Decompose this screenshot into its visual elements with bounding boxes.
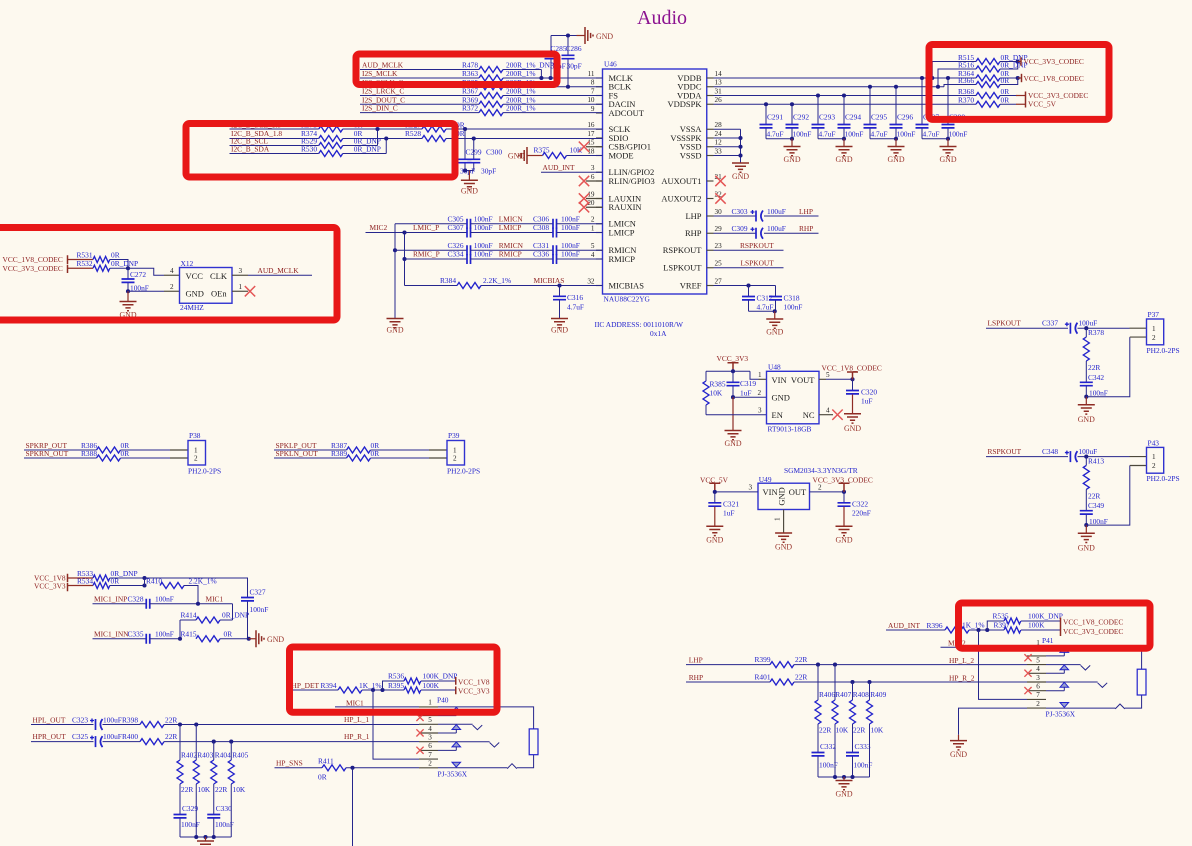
svg-text:R378: R378 — [1088, 328, 1104, 337]
U46 right pin 29 RHP — [707, 232, 714, 234]
svg-text:C305: C305 — [448, 214, 464, 223]
svg-text:0R: 0R — [111, 576, 120, 585]
resistor R414 0R_DNP — [232, 604, 234, 620]
no-connect pin 6 — [586, 180, 603, 182]
svg-text:1uF: 1uF — [740, 388, 752, 397]
svg-text:7: 7 — [591, 87, 595, 95]
op-amp U46 codec box — [603, 69, 707, 294]
svg-text:C325: C325 — [72, 732, 88, 741]
svg-text:1: 1 — [239, 283, 243, 291]
svg-text:100nF: 100nF — [949, 130, 968, 139]
svg-text:26: 26 — [715, 96, 723, 104]
highlight box 3 — [0, 228, 337, 321]
svg-text:P39: P39 — [448, 431, 460, 440]
wire AUD_INT to jack pin 7 — [979, 630, 1028, 699]
resistor R536 100K_DNP — [383, 681, 405, 690]
svg-text:22R: 22R — [165, 732, 177, 741]
wire VSS pins to ground — [714, 128, 741, 130]
svg-text:100uF: 100uF — [767, 224, 786, 233]
svg-text:100nF: 100nF — [474, 241, 493, 250]
U46 right pin 28 VSSA — [707, 128, 714, 130]
capacitor C332 100nF — [817, 724, 819, 753]
ground top — [577, 35, 586, 37]
svg-text:4.7uF: 4.7uF — [767, 130, 784, 139]
U46 right pin 33 VSSD — [707, 155, 714, 157]
svg-text:C332: C332 — [820, 742, 836, 751]
svg-text:P41: P41 — [1042, 636, 1054, 645]
svg-text:1: 1 — [453, 447, 457, 455]
svg-text:AUD_MCLK: AUD_MCLK — [258, 266, 300, 275]
svg-text:RLIN/GPIO3: RLIN/GPIO3 — [609, 176, 655, 186]
svg-text:11: 11 — [588, 70, 595, 78]
resistor R535 100K_DNP — [987, 621, 1004, 630]
svg-text:OUT: OUT — [789, 487, 807, 497]
svg-text:100nF: 100nF — [561, 223, 580, 232]
svg-text:2: 2 — [1152, 462, 1156, 470]
svg-text:C342: C342 — [1088, 373, 1104, 382]
svg-text:100nF: 100nF — [474, 214, 493, 223]
svg-text:C321: C321 — [723, 499, 739, 508]
svg-text:23: 23 — [715, 242, 723, 250]
U46 left pin 4 RMICP — [596, 258, 603, 260]
capacitor C321 1uF — [714, 492, 716, 503]
svg-text:GND: GND — [844, 424, 861, 433]
svg-text:200R_1%: 200R_1% — [506, 104, 536, 113]
svg-text:1: 1 — [591, 224, 595, 232]
capacitor C330 100nF — [213, 784, 215, 815]
svg-text:C295: C295 — [871, 113, 887, 122]
svg-text:100nF: 100nF — [474, 223, 493, 232]
svg-text:ADCOUT: ADCOUT — [609, 108, 645, 118]
svg-text:17: 17 — [587, 130, 595, 138]
capacitor C295 4.7uF — [869, 87, 871, 125]
svg-text:GND: GND — [724, 439, 741, 448]
svg-text:R395: R395 — [388, 681, 404, 690]
capacitor C348 100uF — [1065, 451, 1078, 463]
svg-text:3: 3 — [591, 164, 595, 172]
svg-text:10K: 10K — [871, 725, 884, 734]
svg-text:100nF: 100nF — [155, 629, 174, 638]
svg-text:100K: 100K — [423, 681, 440, 690]
svg-text:22R: 22R — [1088, 492, 1100, 501]
svg-text:LMIC_P: LMIC_P — [413, 223, 439, 232]
ground under mic caps — [387, 319, 404, 328]
svg-text:GND: GND — [775, 542, 792, 551]
U46 right pin 24 VSSSPK — [707, 137, 714, 139]
svg-text:1: 1 — [774, 517, 782, 521]
svg-text:3: 3 — [758, 406, 762, 414]
wire VDDC rail — [714, 86, 945, 88]
svg-text:C326: C326 — [448, 241, 464, 250]
svg-text:VCC_1V8_CODEC: VCC_1V8_CODEC — [1024, 74, 1084, 83]
capacitor C291 4.7uF — [765, 104, 767, 124]
svg-text:VCC_3V3: VCC_3V3 — [458, 686, 490, 695]
svg-text:22R: 22R — [853, 725, 865, 734]
U46 left pin 8 BCLK — [596, 86, 603, 88]
svg-text:HP_R_1: HP_R_1 — [344, 732, 370, 741]
U46 right pin 27 VREF — [707, 285, 714, 287]
svg-text:R394: R394 — [321, 681, 337, 690]
wire HP_SNS junction to bottom edge — [352, 768, 354, 846]
connector P37 PH2.0-2PS — [1147, 319, 1164, 345]
svg-text:GND: GND — [766, 328, 783, 337]
svg-text:22R: 22R — [1088, 363, 1100, 372]
svg-text:3: 3 — [749, 484, 753, 492]
svg-text:LSPKOUT: LSPKOUT — [741, 259, 775, 268]
connector P39 PH2.0-2PS — [447, 441, 465, 466]
svg-text:R411: R411 — [318, 756, 334, 765]
svg-text:MIC1: MIC1 — [346, 698, 364, 707]
svg-text:16: 16 — [587, 121, 595, 129]
svg-text:100uF: 100uF — [767, 207, 786, 216]
svg-text:GND: GND — [835, 790, 852, 799]
svg-text:U46: U46 — [604, 60, 617, 69]
svg-text:VCC_3V3_CODEC: VCC_3V3_CODEC — [1063, 627, 1123, 636]
svg-text:HPL_OUT: HPL_OUT — [33, 716, 66, 725]
svg-text:LSPKOUT: LSPKOUT — [663, 263, 702, 273]
svg-text:C309: C309 — [732, 224, 748, 233]
svg-text:GND: GND — [508, 151, 525, 160]
svg-text:P38: P38 — [189, 431, 201, 440]
U46 left pin 10 DACIN — [596, 103, 603, 105]
svg-text:4: 4 — [591, 251, 595, 259]
U46 left pin 18 MODE — [596, 155, 603, 157]
svg-text:RT9013-18GB: RT9013-18GB — [768, 425, 812, 434]
net AUD_MCLK from crystal — [232, 274, 248, 276]
ground under C299/C300 — [465, 170, 474, 172]
ground right of R415 — [249, 638, 256, 640]
capacitor C305 and C306 on LMICN row — [395, 223, 467, 225]
svg-text:MIC1_INN: MIC1_INN — [94, 629, 129, 638]
svg-text:RHP: RHP — [689, 673, 703, 682]
svg-text:SPKLN_OUT: SPKLN_OUT — [276, 449, 319, 458]
svg-text:4: 4 — [170, 267, 174, 275]
svg-text:R397: R397 — [994, 621, 1010, 630]
svg-text:VCC_3V3_CODEC: VCC_3V3_CODEC — [3, 264, 63, 273]
svg-text:P43: P43 — [1148, 439, 1160, 448]
svg-text:VCC_3V3_CODEC: VCC_3V3_CODEC — [1024, 57, 1084, 66]
connector P41 PJ-3536X — [1024, 639, 1146, 709]
svg-text:100nF: 100nF — [1089, 389, 1108, 398]
svg-text:RSPKOUT: RSPKOUT — [988, 447, 1022, 456]
U46 left pin 9 ADCOUT — [596, 112, 603, 114]
svg-text:3: 3 — [239, 267, 243, 275]
svg-text:4.7uF: 4.7uF — [923, 130, 940, 139]
resistor R378 22R — [1085, 328, 1087, 337]
ground under C349 — [1085, 525, 1087, 533]
svg-text:13: 13 — [715, 79, 723, 87]
svg-text:C349: C349 — [1088, 501, 1104, 510]
capacitor C303 100uF on LHP — [714, 215, 757, 217]
svg-text:R530: R530 — [301, 145, 317, 154]
ground under C316 — [551, 319, 568, 328]
svg-text:C300: C300 — [486, 147, 502, 156]
wire VOUT to VCC_1V8_CODEC — [819, 378, 826, 380]
svg-text:NC: NC — [803, 410, 815, 420]
power VCC_3V3_CODEC and VCC_5V — [1025, 92, 1027, 108]
svg-text:R534: R534 — [77, 576, 93, 585]
svg-text:VCC_3V3: VCC_3V3 — [34, 581, 66, 590]
svg-text:1uF: 1uF — [861, 396, 873, 405]
svg-text:GND: GND — [551, 326, 568, 335]
svg-text:31: 31 — [715, 87, 723, 95]
svg-text:0R_DNP: 0R_DNP — [354, 145, 381, 154]
svg-text:VIN: VIN — [772, 375, 787, 385]
svg-text:0R: 0R — [371, 449, 380, 458]
svg-text:R401: R401 — [755, 673, 771, 682]
svg-text:22R: 22R — [165, 716, 177, 725]
svg-text:MIC2: MIC2 — [370, 223, 388, 232]
U46 right pin 30 LHP — [707, 215, 714, 217]
wire to header pin 2 — [1086, 337, 1130, 397]
svg-text:R375: R375 — [534, 146, 550, 155]
U46 right pin 13 VDDC — [707, 86, 714, 88]
svg-text:HPR_OUT: HPR_OUT — [33, 732, 67, 741]
net LSPKOUT — [714, 267, 784, 269]
wire VCC_5V to VIN — [715, 491, 758, 493]
no-connect U48 NC pin — [819, 414, 833, 416]
wire to X12 VCC pin — [128, 268, 164, 275]
svg-text:R398: R398 — [122, 716, 138, 725]
svg-text:VCC: VCC — [186, 271, 204, 281]
svg-text:4.7uF: 4.7uF — [871, 130, 888, 139]
svg-text:LHP: LHP — [799, 207, 813, 216]
svg-text:AUD_INT: AUD_INT — [888, 621, 921, 630]
svg-text:GND: GND — [1078, 415, 1095, 424]
svg-text:4.7uF: 4.7uF — [567, 302, 584, 311]
svg-text:10: 10 — [587, 96, 595, 104]
svg-text:100nF: 100nF — [474, 250, 493, 259]
svg-text:MODE: MODE — [609, 150, 634, 160]
svg-text:VCC_3V3: VCC_3V3 — [717, 354, 749, 363]
svg-text:C330: C330 — [216, 804, 232, 813]
svg-text:100K_DNP: 100K_DNP — [1028, 612, 1063, 621]
svg-text:0R_DNP: 0R_DNP — [111, 259, 138, 268]
svg-text:29: 29 — [715, 225, 723, 233]
svg-text:LMICN: LMICN — [499, 214, 523, 223]
svg-text:C291: C291 — [767, 113, 783, 122]
svg-text:100nF: 100nF — [155, 594, 174, 603]
ground under C319 — [732, 397, 734, 430]
svg-text:100nF: 100nF — [784, 303, 803, 312]
no-connect X12 OEn — [232, 290, 248, 292]
svg-text:R528: R528 — [405, 129, 421, 138]
svg-text:PH2.0-2PS: PH2.0-2PS — [1147, 346, 1180, 355]
capacitor C286 30pF — [567, 59, 569, 86]
svg-text:LMICP: LMICP — [499, 223, 522, 232]
no-connect AUXOUT2 — [715, 193, 725, 203]
svg-text:AUD_INT: AUD_INT — [543, 163, 576, 172]
svg-text:SGM2034-3.3YN3G/TR: SGM2034-3.3YN3G/TR — [784, 466, 858, 475]
svg-text:27: 27 — [715, 277, 723, 285]
svg-text:C293: C293 — [819, 113, 835, 122]
wire VREF caps to ground — [749, 310, 776, 312]
svg-text:C331: C331 — [533, 241, 549, 250]
svg-text:HP_L_1: HP_L_1 — [344, 715, 369, 724]
svg-text:24: 24 — [715, 130, 723, 138]
svg-text:100uF: 100uF — [1078, 447, 1097, 456]
wire to header pin 2 — [1086, 466, 1130, 526]
oscillator X12 24MHZ — [180, 268, 233, 304]
svg-text:100nF: 100nF — [181, 820, 200, 829]
highlight box 1 — [356, 54, 557, 85]
resistor R384 2.2K_1% MICBIAS — [405, 285, 458, 287]
svg-text:C292: C292 — [793, 113, 809, 122]
highlight box 5 — [290, 647, 498, 712]
svg-text:24MHZ: 24MHZ — [180, 303, 204, 312]
svg-text:HP_DET: HP_DET — [292, 681, 320, 690]
svg-text:22R: 22R — [181, 785, 193, 794]
svg-text:C322: C322 — [852, 499, 868, 508]
svg-text:32: 32 — [587, 277, 595, 285]
U46 left pin 16 SCLK — [596, 128, 603, 130]
svg-text:R388: R388 — [81, 449, 97, 458]
ground bottom right block — [843, 777, 845, 781]
svg-text:C319: C319 — [740, 379, 756, 388]
svg-text:C294: C294 — [845, 113, 861, 122]
svg-text:GND: GND — [706, 535, 723, 544]
svg-text:0R: 0R — [224, 629, 233, 638]
svg-text:R407: R407 — [835, 690, 851, 699]
svg-text:22R: 22R — [795, 655, 807, 664]
svg-text:RMIC_P: RMIC_P — [413, 250, 440, 259]
svg-text:VDDSPK: VDDSPK — [667, 99, 702, 109]
connector P38 PH2.0-2PS — [188, 441, 206, 466]
svg-text:C333: C333 — [855, 742, 871, 751]
svg-text:C348: C348 — [1042, 447, 1058, 456]
svg-text:GND: GND — [835, 535, 852, 544]
resistor R368 0R — [976, 93, 1000, 99]
svg-text:PH2.0-2PS: PH2.0-2PS — [447, 467, 480, 476]
svg-text:C286: C286 — [566, 44, 582, 53]
svg-text:C308: C308 — [533, 223, 549, 232]
capacitor C317 4.7uF on VREF — [714, 285, 776, 287]
svg-text:R406: R406 — [819, 690, 835, 699]
svg-text:C316: C316 — [567, 293, 583, 302]
svg-text:GND: GND — [835, 155, 852, 164]
svg-text:GND: GND — [939, 155, 956, 164]
svg-text:LSPKOUT: LSPKOUT — [988, 319, 1022, 328]
svg-text:R413: R413 — [1088, 457, 1104, 466]
svg-text:14: 14 — [715, 70, 723, 78]
wire resistor bottoms to ground right block — [834, 724, 836, 777]
op-amp U48 regulator RT9013-18GB — [767, 371, 820, 424]
svg-text:R370: R370 — [958, 95, 974, 104]
svg-text:100nF: 100nF — [561, 241, 580, 250]
svg-text:P37: P37 — [1148, 310, 1160, 319]
svg-text:6: 6 — [591, 173, 595, 181]
power VCC_3V3_CODEC — [1020, 57, 1022, 65]
svg-text:GND: GND — [186, 289, 204, 299]
svg-text:28: 28 — [715, 121, 723, 129]
svg-text:GND: GND — [950, 750, 967, 759]
svg-text:MICBIAS: MICBIAS — [609, 280, 645, 290]
svg-text:RMICN: RMICN — [499, 241, 524, 250]
svg-text:R403: R403 — [197, 750, 213, 759]
svg-text:22R: 22R — [795, 673, 807, 682]
svg-text:R415: R415 — [181, 629, 197, 638]
svg-text:RHP: RHP — [799, 224, 813, 233]
svg-text:HP_SNS: HP_SNS — [276, 758, 303, 767]
svg-text:R409: R409 — [870, 690, 886, 699]
capacitor C333 100nF — [852, 724, 854, 753]
svg-text:GND: GND — [596, 32, 613, 41]
U46 left pin 15 CSB/GPIO1 — [596, 146, 603, 148]
svg-text:OEn: OEn — [211, 289, 227, 299]
svg-text:100K: 100K — [1028, 621, 1045, 630]
wire VDDSPK rail — [714, 103, 977, 105]
wire jack P41 pin 2 to ground — [959, 708, 1028, 735]
svg-text:4.7uF: 4.7uF — [819, 130, 836, 139]
svg-text:0R: 0R — [318, 772, 327, 781]
resistor R413 22R — [1085, 457, 1087, 466]
no-connect pin 19 — [586, 198, 603, 200]
svg-text:100nF: 100nF — [250, 605, 269, 614]
svg-text:R405: R405 — [232, 750, 248, 759]
capacitor C337 100uF — [1065, 322, 1078, 334]
svg-text:HP_R_2: HP_R_2 — [949, 674, 975, 683]
svg-text:U48: U48 — [768, 362, 781, 371]
svg-text:2: 2 — [758, 389, 762, 397]
svg-text:VCC_5V: VCC_5V — [1028, 100, 1057, 109]
svg-text:100nF: 100nF — [845, 130, 864, 139]
wire EN pin — [706, 414, 767, 416]
svg-text:2: 2 — [194, 455, 198, 463]
svg-text:RSPKOUT: RSPKOUT — [663, 245, 703, 255]
svg-text:22R: 22R — [819, 725, 831, 734]
svg-text:0R: 0R — [1001, 95, 1010, 104]
capacitor C307 and C308 on LMICP row — [405, 232, 468, 234]
svg-text:GND: GND — [887, 155, 904, 164]
svg-text:Audio: Audio — [637, 7, 687, 29]
U46 left pin 17 SDIO — [596, 137, 603, 139]
U46 right pin 31 VDDA — [707, 95, 714, 97]
svg-text:2: 2 — [591, 216, 595, 224]
svg-text:PH2.0-2PS: PH2.0-2PS — [1147, 474, 1180, 483]
svg-text:100nF: 100nF — [561, 250, 580, 259]
svg-text:10K: 10K — [836, 725, 849, 734]
wire MIC2 vertical — [404, 233, 406, 286]
svg-text:RSPKOUT: RSPKOUT — [740, 241, 774, 250]
svg-text:RMICP: RMICP — [609, 254, 636, 264]
svg-text:0x1A: 0x1A — [650, 329, 667, 338]
highlight box 4 — [929, 45, 1109, 120]
svg-text:9: 9 — [591, 105, 595, 113]
svg-text:I2C_B_SDA: I2C_B_SDA — [231, 145, 270, 154]
capacitor C329 100nF — [179, 784, 181, 815]
U46 left pin 3 LLIN/GPIO2 — [596, 171, 603, 173]
svg-text:100uF: 100uF — [1078, 319, 1097, 328]
svg-text:1K_1%: 1K_1% — [962, 621, 985, 630]
U46 left pin 6 RLIN/GPIO3 — [596, 180, 603, 182]
svg-text:100nF: 100nF — [897, 130, 916, 139]
svg-text:VOUT: VOUT — [791, 375, 815, 385]
svg-text:RAUXIN: RAUXIN — [609, 202, 642, 212]
no-connect AUXOUT1 — [715, 176, 725, 186]
svg-text:100uF: 100uF — [103, 716, 122, 725]
svg-text:C337: C337 — [1042, 319, 1058, 328]
svg-text:25: 25 — [715, 260, 723, 268]
wire to X12 GND pin — [126, 289, 130, 293]
wire cap pair join to ground — [818, 138, 844, 140]
svg-text:P40: P40 — [437, 696, 449, 705]
svg-text:1uF: 1uF — [723, 509, 735, 518]
svg-text:CLK: CLK — [210, 271, 228, 281]
junction dots on MCLK/BCLK nets — [539, 76, 543, 80]
svg-text:100K_DNP: 100K_DNP — [423, 672, 458, 681]
svg-text:0R: 0R — [121, 449, 130, 458]
svg-text:VIN: VIN — [763, 487, 778, 497]
